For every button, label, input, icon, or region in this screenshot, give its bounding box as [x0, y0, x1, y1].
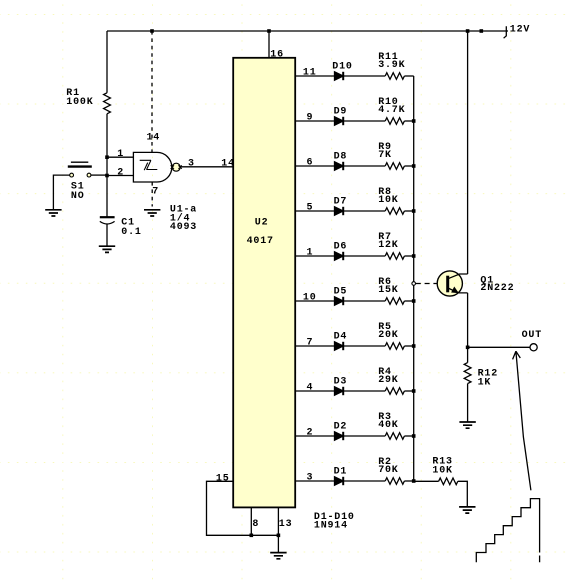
capacitor C1 0.1 [100, 217, 142, 238]
resistor R3 40K [378, 412, 404, 439]
transistor Q1 2N222 [437, 271, 514, 296]
wire resistor R4 to summing bus [404, 390, 413, 392]
power terminal +12V [504, 25, 531, 39]
svg-text:D7: D7 [334, 196, 348, 207]
svg-text:2: 2 [117, 167, 124, 178]
wire U2 pin 5 to diode D7 [295, 203, 334, 214]
svg-text:0.1: 0.1 [121, 227, 141, 238]
svg-text:11: 11 [303, 68, 317, 79]
svg-text:12K: 12K [378, 240, 398, 251]
svg-text:D8: D8 [334, 151, 348, 162]
node junction on rail at power pin 14 drop [150, 29, 154, 33]
wire resistor R5 to summing bus [404, 345, 413, 347]
ground under pins 8 13 [270, 553, 286, 559]
wire diode D2 to resistor R3 [343, 435, 385, 437]
wire resistor R8 to summing bus [404, 210, 413, 212]
svg-text:10K: 10K [378, 195, 398, 206]
wire U2 pin 4 to diode D3 [295, 383, 334, 394]
resistor R12 1K [464, 347, 498, 388]
annotation arrow from staircase to OUT [513, 351, 531, 490]
diode D8 [334, 151, 348, 170]
svg-text:9: 9 [307, 113, 314, 124]
svg-text:20K: 20K [378, 330, 398, 341]
svg-text:D10: D10 [332, 61, 352, 72]
svg-text:D4: D4 [334, 331, 348, 342]
wire dashed base of Q1 [416, 283, 437, 285]
wire pin 13 to ground [278, 507, 292, 552]
svg-text:OUT: OUT [522, 330, 542, 341]
node base tap open circle on bus [412, 282, 416, 286]
node junction on rail at pin 16 drop [267, 29, 271, 33]
svg-text:14: 14 [147, 133, 161, 144]
wire +12V supply rail [107, 30, 508, 32]
ground under R13 [459, 507, 475, 513]
svg-text:D9: D9 [334, 106, 348, 117]
wire resistor R6 to summing bus [404, 300, 413, 302]
wire diode D10 to resistor R11 [343, 75, 385, 77]
node pin1 junction [105, 155, 109, 159]
node bus junction row R6 [412, 299, 416, 303]
svg-text:13: 13 [279, 519, 293, 530]
svg-text:D6: D6 [334, 241, 348, 252]
resistor R9 7K [378, 142, 404, 169]
ground under gate pin 7 [144, 210, 160, 216]
node bus junction row R4 [412, 389, 416, 393]
svg-text:7: 7 [152, 187, 159, 198]
wire C1 to ground [106, 224, 108, 246]
resistor R6 15K [378, 277, 404, 304]
wire U2 pin 11 to diode D10 [295, 68, 334, 79]
svg-text:7K: 7K [378, 150, 392, 161]
wire dashed ground pin 7 of U1 [151, 182, 153, 207]
node bus junction row R8 [412, 209, 416, 213]
diode D9 [334, 106, 348, 125]
wire diode D1 to resistor R2 [343, 480, 385, 482]
wire R13 to ground [458, 481, 468, 506]
wire gate input pin 1 [107, 156, 133, 158]
staircase waveform glyph [476, 499, 539, 563]
wire gate output pin 3 to U2 pin 14 [180, 166, 233, 168]
svg-text:4: 4 [307, 383, 314, 394]
svg-text:10: 10 [303, 293, 317, 304]
wire pin 16 to rail [269, 31, 284, 61]
wire R12 to ground [467, 384, 469, 422]
resistor R11 3.9K [378, 52, 405, 79]
node bus junction row R7 [412, 254, 416, 258]
wire pin 8 to ground rail [251, 507, 259, 535]
wire diode D8 to resistor R9 [343, 165, 385, 167]
node junction on rail [480, 29, 484, 33]
svg-text:D5: D5 [334, 286, 348, 297]
wire collector to rail [467, 31, 469, 274]
diode D1 [334, 466, 348, 485]
node junction pin 13 [277, 534, 281, 538]
node output junction [466, 346, 470, 350]
wire diode D7 to resistor R8 [343, 210, 385, 212]
svg-text:70K: 70K [378, 465, 398, 476]
resistor R13 10K [432, 457, 457, 485]
svg-text:3: 3 [307, 473, 314, 484]
op-amp U2 4017 counter IC body [233, 58, 295, 508]
wire from rail down to R1 [106, 31, 108, 93]
resistor R1 100K [66, 88, 110, 114]
svg-text:4093: 4093 [170, 222, 197, 233]
wire resistor R3 to summing bus [404, 435, 413, 437]
svg-text:4017: 4017 [247, 236, 274, 247]
wire summing bus vertical [413, 76, 415, 481]
wire U2 pin 7 to diode D4 [295, 338, 334, 349]
svg-text:16: 16 [270, 50, 284, 61]
wire U2 pin 10 to diode D5 [295, 293, 334, 304]
op-amp U1-a Schmitt NAND gate 1/4 4093 [117, 133, 197, 234]
resistor R4 29K [378, 367, 404, 394]
diode D2 [334, 421, 348, 440]
svg-text:4.7K: 4.7K [378, 105, 405, 116]
svg-text:3: 3 [188, 158, 195, 169]
resistor R10 4.7K [378, 97, 405, 124]
wire gate input pin 2 [107, 175, 133, 177]
node bus junction row R9 [412, 164, 416, 168]
resistor R7 12K [378, 232, 404, 259]
switch S1 NO pushbutton [68, 162, 92, 202]
wire S1 right contact to node [91, 174, 107, 176]
svg-text:29K: 29K [378, 375, 398, 386]
wire U2 pin 1 to diode D6 [295, 248, 334, 259]
wire U2 pin 6 to diode D8 [295, 158, 334, 169]
svg-text:2N222: 2N222 [480, 283, 514, 294]
resistor R2 70K [378, 457, 404, 484]
svg-text:1: 1 [117, 149, 124, 160]
svg-text:U2: U2 [255, 217, 269, 228]
node OUT terminal [522, 330, 542, 351]
wire resistor R7 to summing bus [404, 255, 413, 257]
svg-text:1N914: 1N914 [314, 520, 348, 531]
wire bus to R13 [414, 480, 439, 482]
node bus junction row R2 [412, 479, 416, 483]
node junction pin 8 [250, 534, 254, 538]
wire pin 15 loop to pin 8 and 13 [207, 474, 279, 536]
svg-text:D3: D3 [334, 376, 348, 387]
svg-text:1K: 1K [478, 378, 492, 389]
svg-text:100K: 100K [66, 97, 93, 108]
node bus junction row R10 [412, 119, 416, 123]
svg-text:5: 5 [307, 203, 314, 214]
svg-text:D1: D1 [334, 466, 348, 477]
wire emitter down to output node [467, 293, 469, 347]
node bus junction row R5 [412, 344, 416, 348]
wire diode D5 to resistor R6 [343, 300, 385, 302]
svg-text:15K: 15K [378, 285, 398, 296]
diode D4 [334, 331, 348, 350]
diode D3 [334, 376, 348, 395]
wire diode D9 to resistor R10 [343, 120, 385, 122]
resistor R8 10K [378, 187, 404, 214]
wire resistor R9 to summing bus [404, 165, 413, 167]
wire diode D4 to resistor R5 [343, 345, 385, 347]
wire U2 pin 9 to diode D9 [295, 113, 334, 124]
ground under R12 [459, 422, 475, 428]
diode D5 [334, 286, 348, 305]
wire diode D3 to resistor R4 [343, 390, 385, 392]
svg-text:14: 14 [221, 158, 235, 169]
wire resistor R11 to summing bus [404, 75, 413, 77]
wire diode D6 to resistor R7 [343, 255, 385, 257]
node junction on rail at collector drop [466, 29, 470, 33]
svg-text:15: 15 [216, 474, 230, 485]
node pin2 junction [105, 174, 109, 178]
wire S1 left contact to ground [53, 175, 69, 209]
note D1-D10 1N914 [314, 512, 355, 531]
svg-text:NO: NO [71, 191, 85, 202]
wire U2 pin 2 to diode D2 [295, 428, 334, 439]
wire resistor R2 to summing bus [404, 480, 413, 482]
svg-text:10K: 10K [432, 465, 452, 476]
svg-text:1: 1 [307, 248, 314, 259]
diode D6 [334, 241, 348, 260]
wire U2 pin 3 to diode D1 [295, 473, 334, 484]
diode D7 [334, 196, 348, 215]
resistor R5 20K [378, 322, 404, 349]
svg-text:7: 7 [307, 338, 314, 349]
diode D10 [332, 61, 352, 80]
wire dashed power pin 14 of U1 from rail [151, 31, 153, 152]
wire resistor R10 to summing bus [404, 120, 413, 122]
node pin 14 label [221, 158, 235, 169]
ground under S1 [45, 210, 61, 216]
node bus junction row R3 [412, 434, 416, 438]
ground under C1 [99, 246, 115, 252]
svg-text:D2: D2 [334, 421, 348, 432]
svg-text:3.9K: 3.9K [378, 60, 405, 71]
svg-text:40K: 40K [378, 420, 398, 431]
svg-text:12V: 12V [510, 25, 530, 36]
svg-text:2: 2 [307, 428, 314, 439]
wire R1 to gate input nodes and C1 [106, 114, 108, 217]
wire to OUT terminal [468, 346, 530, 348]
svg-text:8: 8 [252, 519, 259, 530]
svg-text:6: 6 [307, 158, 314, 169]
